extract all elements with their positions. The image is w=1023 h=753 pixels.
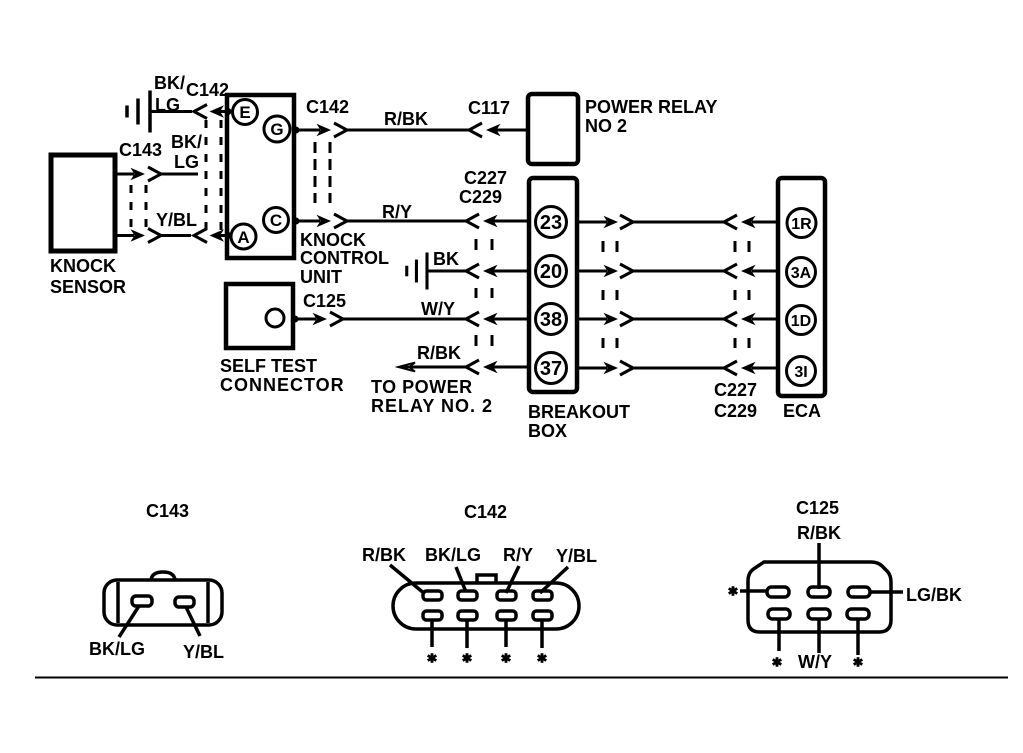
svg-text:CONTROL: CONTROL	[300, 248, 389, 268]
svg-text:BK: BK	[433, 249, 459, 269]
svg-text:C229: C229	[714, 401, 757, 421]
svg-text:SENSOR: SENSOR	[50, 277, 126, 297]
svg-text:KNOCK: KNOCK	[300, 230, 366, 250]
svg-text:R/BK: R/BK	[362, 545, 406, 565]
svg-text:R/BK: R/BK	[417, 343, 461, 363]
svg-text:C227: C227	[464, 168, 507, 188]
svg-text:BK/LG: BK/LG	[89, 639, 145, 659]
svg-text:C125: C125	[796, 498, 839, 518]
svg-text:BK/: BK/	[171, 132, 202, 152]
svg-text:R/Y: R/Y	[503, 545, 533, 565]
svg-text:C117: C117	[468, 98, 510, 118]
svg-text:SELF TEST: SELF TEST	[220, 356, 317, 376]
svg-text:TO POWER: TO POWER	[371, 377, 473, 397]
svg-text:LG: LG	[155, 95, 180, 115]
svg-text:RELAY NO. 2: RELAY NO. 2	[371, 396, 493, 416]
svg-text:Y/BL: Y/BL	[156, 210, 197, 230]
svg-text:W/Y: W/Y	[421, 299, 455, 319]
svg-text:W/Y: W/Y	[798, 652, 832, 672]
svg-text:C142: C142	[464, 502, 507, 522]
svg-text:A: A	[237, 228, 249, 247]
svg-text:G: G	[270, 120, 283, 139]
svg-text:LG/BK: LG/BK	[906, 585, 962, 605]
svg-text:3I: 3I	[794, 364, 807, 381]
svg-text:3A: 3A	[791, 265, 812, 282]
svg-text:C142: C142	[306, 97, 349, 117]
svg-text:R/BK: R/BK	[797, 523, 841, 543]
svg-text:BREAKOUT: BREAKOUT	[528, 402, 630, 422]
svg-text:C227: C227	[714, 380, 757, 400]
svg-text:ECA: ECA	[783, 401, 821, 421]
svg-text:23: 23	[540, 212, 562, 234]
svg-text:BK/: BK/	[154, 73, 185, 93]
svg-text:C125: C125	[303, 291, 346, 311]
svg-text:38: 38	[540, 309, 562, 331]
svg-text:Y/BL: Y/BL	[556, 546, 597, 566]
svg-text:Y/BL: Y/BL	[183, 642, 224, 662]
svg-text:LG: LG	[174, 152, 199, 172]
svg-text:1R: 1R	[791, 216, 812, 233]
svg-text:1D: 1D	[791, 313, 811, 330]
svg-text:KNOCK: KNOCK	[50, 256, 116, 276]
svg-text:20: 20	[540, 261, 562, 283]
svg-text:CONNECTOR: CONNECTOR	[220, 375, 345, 395]
svg-text:UNIT: UNIT	[300, 267, 342, 287]
svg-text:C142: C142	[186, 80, 229, 100]
svg-text:R/Y: R/Y	[382, 202, 412, 222]
svg-text:C143: C143	[119, 140, 162, 160]
svg-text:POWER RELAY: POWER RELAY	[585, 97, 717, 117]
svg-text:BK/LG: BK/LG	[425, 545, 481, 565]
svg-text:C: C	[270, 211, 282, 230]
svg-text:BOX: BOX	[528, 421, 567, 441]
svg-text:C229: C229	[459, 187, 502, 207]
svg-text:C143: C143	[146, 501, 189, 521]
svg-text:NO 2: NO 2	[585, 116, 627, 136]
svg-text:37: 37	[540, 358, 562, 380]
svg-text:R/BK: R/BK	[384, 109, 428, 129]
svg-text:E: E	[239, 103, 250, 122]
